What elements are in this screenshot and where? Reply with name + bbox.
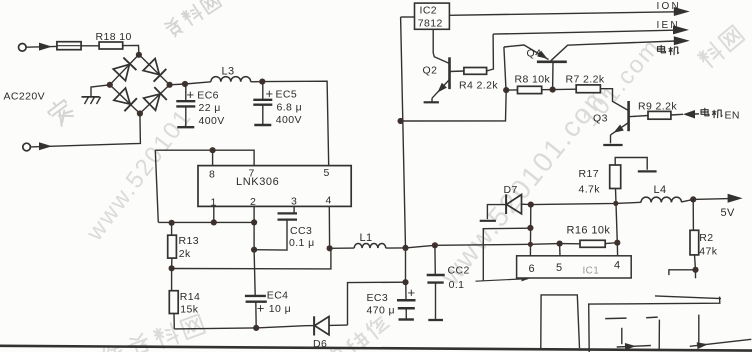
wire: left bypass vertical <box>155 150 158 222</box>
wire: bridge left to earth <box>91 85 110 97</box>
svg-text:6.8 μ: 6.8 μ <box>277 101 303 113</box>
svg-text:+: + <box>187 87 195 102</box>
svg-text:+: + <box>266 86 274 101</box>
node: R13 top <box>169 220 175 226</box>
label EC4 10u <box>267 290 291 315</box>
capacitor EC3 <box>397 248 416 320</box>
svg-text:IC2: IC2 <box>420 5 438 17</box>
svg-text:15k: 15k <box>180 303 198 315</box>
pin 4 <box>326 195 332 207</box>
svg-text:R4 2.2k: R4 2.2k <box>459 80 498 92</box>
wire: phase input with arrow <box>26 43 57 51</box>
svg-text:Q4: Q4 <box>527 48 542 60</box>
node: EC6 top <box>182 81 188 87</box>
svg-text:4: 4 <box>614 259 621 271</box>
resistor R9 <box>648 111 683 119</box>
wire: L4 to 5V out <box>682 199 694 202</box>
svg-text:22 μ: 22 μ <box>199 102 221 114</box>
svg-text:R17: R17 <box>579 168 599 180</box>
node: CC3 bottom junction <box>251 247 257 253</box>
pin 3 <box>291 196 297 208</box>
node: R16 right <box>614 240 620 246</box>
svg-text:R14: R14 <box>180 291 200 303</box>
label 5V <box>721 207 736 219</box>
pin 6 <box>529 263 536 275</box>
svg-text:L3: L3 <box>222 66 235 78</box>
wire: pin 8 stub <box>212 150 214 165</box>
svg-text:IC1: IC1 <box>583 266 600 277</box>
node: EC4 bottom <box>253 325 259 331</box>
svg-text:L1: L1 <box>360 232 373 244</box>
wire: bottom stub 1 <box>605 317 626 320</box>
diode D2 (bridge top-right) <box>139 55 170 85</box>
wire: 12V feed vertical <box>401 17 406 248</box>
node: R17 rail cross <box>613 201 618 206</box>
svg-text:5: 5 <box>556 262 563 274</box>
node: pin2 junction <box>251 219 257 225</box>
node: bridge left <box>107 82 113 88</box>
op-amp U2 IC1 box <box>517 256 632 278</box>
ground: R17 bar <box>638 170 657 172</box>
wire: bottom box B <box>589 296 721 352</box>
wire: IC2 out to Q2 collector <box>433 29 449 63</box>
wire: pin 2 stub <box>253 206 255 222</box>
svg-text:3: 3 <box>291 196 297 208</box>
pin 7 <box>249 168 255 180</box>
wire: R18 to bridge top <box>123 45 139 54</box>
resistor R16 <box>560 240 618 247</box>
label IC1 <box>583 266 600 277</box>
wire: D6 to EC3 top <box>348 282 406 325</box>
fuse F1 <box>57 42 81 50</box>
svg-text:CC2: CC2 <box>448 265 470 277</box>
pin 8 <box>209 169 215 181</box>
wire: 5V arrow <box>693 194 742 203</box>
node: AC input terminal L <box>19 44 27 52</box>
pin 5 <box>324 167 330 179</box>
svg-text:400V: 400V <box>199 115 225 127</box>
label R16 10k <box>567 224 611 236</box>
label EC3 470u <box>367 292 396 317</box>
wire: L3 to pin5 corner <box>251 81 329 165</box>
wire: bottom border line <box>0 346 752 351</box>
svg-text:Q3: Q3 <box>593 113 608 125</box>
label IC2 7812 <box>418 5 443 30</box>
label R13 2k <box>179 235 199 260</box>
svg-text:0.1: 0.1 <box>449 279 465 291</box>
label R2 47k <box>699 232 717 257</box>
wire: 12V rail <box>406 244 560 248</box>
node: R8 right <box>550 87 556 93</box>
wire: pins 8-7 top link <box>155 150 254 165</box>
node: R16 left <box>557 241 563 247</box>
label R4 2.2k <box>459 80 498 92</box>
capacitor EC5 <box>253 82 273 125</box>
svg-text:7812: 7812 <box>418 18 443 30</box>
ground: Q2 emitter bar <box>424 101 439 103</box>
node: pin6 rail cross <box>528 242 533 247</box>
wire: ION line <box>449 7 689 16</box>
svg-text:5: 5 <box>324 167 330 179</box>
ground: Q3 emitter bar <box>603 144 622 146</box>
resistor R18 <box>99 42 123 49</box>
svg-text:7: 7 <box>249 168 255 180</box>
svg-text:R18 10: R18 10 <box>96 31 132 43</box>
node: pin1 junction <box>211 219 217 225</box>
wire: bottom stub 2 <box>646 316 658 319</box>
wire: pin 1 stub <box>213 206 215 222</box>
svg-text:www.520101: www.520101 <box>81 104 198 247</box>
label D7 <box>504 184 518 196</box>
wire: bottom return rail <box>174 326 305 329</box>
label LNK306 <box>236 176 279 188</box>
svg-text:6: 6 <box>529 263 536 275</box>
label CC2 0.1 <box>448 265 470 292</box>
capacitor EC4 <box>245 250 267 328</box>
diode D4 (bridge bottom-right) <box>140 85 170 114</box>
wire: motor line <box>585 36 690 45</box>
node: CC2 top <box>432 242 438 248</box>
inductor L4 <box>641 197 682 202</box>
label EC6 22u 400V <box>197 90 224 128</box>
node: bridge right <box>167 82 173 88</box>
diode D6 <box>306 316 348 335</box>
wire: bottom arrow 2 <box>690 339 752 349</box>
svg-text:0.1 μ: 0.1 μ <box>289 237 315 249</box>
pin 4 ic1 <box>614 259 621 271</box>
wire: pin 4 leg <box>328 206 330 248</box>
wire: bottom box A <box>541 295 580 348</box>
svg-text:4: 4 <box>326 195 332 207</box>
svg-text:10 μ: 10 μ <box>269 303 291 315</box>
svg-text:R9 2.2k: R9 2.2k <box>638 101 677 113</box>
label R8 10k <box>515 74 551 86</box>
node: R2 bottom <box>692 267 698 273</box>
node: D7 out <box>528 202 534 208</box>
node: bridge bottom <box>137 110 143 116</box>
node: L1 right <box>402 245 408 251</box>
op-amp U3 IC2 7812 box <box>415 3 450 29</box>
wire: D7 cathode to stub <box>487 205 506 220</box>
svg-text:R16 10k: R16 10k <box>567 224 611 236</box>
inductor L1 <box>330 244 406 249</box>
transistor Q2 <box>432 57 464 102</box>
diode D7 <box>506 194 531 214</box>
transistor Q3 <box>611 101 649 143</box>
svg-text:+: + <box>257 301 265 316</box>
wire: bottom vert 3 <box>698 315 700 346</box>
label L4 <box>654 184 667 196</box>
svg-text:EC3: EC3 <box>367 292 389 304</box>
resistor R13 <box>168 223 177 268</box>
svg-text:47k: 47k <box>699 245 717 257</box>
wire: pin 5 stub <box>559 244 561 257</box>
svg-text:2: 2 <box>250 196 256 208</box>
svg-text:CC3: CC3 <box>290 225 312 237</box>
inductor L3 <box>211 77 251 82</box>
capacitor CC2 <box>427 245 445 320</box>
svg-text:R7 2.2k: R7 2.2k <box>566 73 605 85</box>
ground: D7 stub bar <box>480 220 496 222</box>
label CC3 0.1u <box>289 225 315 249</box>
wire: pin 4 stub <box>616 243 618 257</box>
diode D3 (bridge bottom-left) <box>110 85 140 114</box>
wire: IC2 input <box>401 16 415 18</box>
capacitor CC3 <box>254 206 297 250</box>
label EC5 6.8u 400V <box>276 89 303 126</box>
wire: tap to CC2 side <box>483 228 530 281</box>
node: EC3 top junction <box>402 279 408 285</box>
svg-text:D7: D7 <box>504 184 518 196</box>
label L1 <box>360 232 373 244</box>
wire: source bus <box>158 221 254 223</box>
svg-text:LNK306: LNK306 <box>236 176 279 188</box>
node: R2 top <box>690 196 696 202</box>
svg-text:EC4: EC4 <box>267 290 289 302</box>
op-amp U1 LNK306 box <box>198 166 351 207</box>
label Q4 <box>527 48 542 60</box>
svg-text:R13: R13 <box>179 235 199 247</box>
wire: pin 2 down <box>253 222 255 249</box>
label R7 2.2k <box>566 73 605 85</box>
svg-text:R8 10k: R8 10k <box>515 74 551 86</box>
node: R13 bottom <box>169 265 175 271</box>
wire: R17 bottom leg <box>616 189 618 243</box>
wire: bottom arrow 1 <box>617 343 651 350</box>
label R9 2.2k <box>638 101 677 113</box>
node: EC5 top <box>259 79 265 85</box>
pin 2 <box>250 196 256 208</box>
transistor Q4 <box>504 44 585 89</box>
resistor R2 <box>690 199 699 269</box>
wire: annotation leader <box>476 276 530 281</box>
node: Q2 tap <box>398 118 404 124</box>
svg-text:4.7k: 4.7k <box>579 184 601 196</box>
wire: R2 bottom L <box>669 270 696 279</box>
label ION <box>657 1 681 12</box>
pin 1 <box>211 197 217 209</box>
resistor R8 <box>506 86 552 93</box>
svg-text:Q2: Q2 <box>423 65 438 77</box>
node: pin8 junction <box>210 147 216 153</box>
wire: Q4 emitter down <box>504 47 506 90</box>
label R18 10 <box>96 31 132 43</box>
node: R8 left <box>503 87 509 93</box>
node: L1 left <box>327 245 333 251</box>
svg-text:AC220V: AC220V <box>4 91 46 103</box>
wire: neutral input with arrow <box>30 114 140 151</box>
svg-text:2k: 2k <box>179 248 191 260</box>
svg-text:L4: L4 <box>654 184 667 196</box>
resistor R14 <box>169 268 178 329</box>
wire: IEN line <box>493 25 689 34</box>
resistor R4 <box>464 34 494 74</box>
node: AC input terminal N <box>23 143 31 151</box>
label R14 15k <box>180 291 200 315</box>
svg-text:470 μ: 470 μ <box>367 305 396 317</box>
wire: Q2 base return <box>401 90 507 121</box>
wire: D7 down to pin6 <box>529 205 531 257</box>
wire: bottom vert 2 <box>658 320 660 351</box>
label D6 <box>313 338 327 350</box>
svg-text:ION: ION <box>657 1 681 12</box>
wire: fuse to R18 <box>81 45 99 47</box>
svg-text:+: + <box>408 285 416 300</box>
label Q3 <box>593 113 608 125</box>
capacitor EC6 <box>176 84 195 127</box>
node: pin6 tap <box>527 225 533 231</box>
svg-text:EC6: EC6 <box>197 90 219 102</box>
wire: bottom vert 1 <box>621 328 623 344</box>
svg-text:R2: R2 <box>699 232 713 244</box>
label 电机EN <box>701 108 740 121</box>
node: bridge top <box>136 52 142 58</box>
ground: mains earth <box>82 97 101 104</box>
svg-text:5V: 5V <box>721 207 736 219</box>
wire: feedback to pin4 leg <box>172 248 331 269</box>
label Q2 <box>423 65 438 77</box>
label IEN <box>657 20 680 31</box>
svg-text:EC5: EC5 <box>276 89 298 101</box>
label L3 <box>222 66 235 78</box>
svg-text:EN: EN <box>725 109 740 121</box>
label AC220V <box>4 91 46 103</box>
diode D1 (bridge top-left) <box>110 55 139 85</box>
resistor R17 <box>610 158 648 189</box>
wire: HV rail <box>170 82 211 85</box>
label 电机 <box>658 45 679 54</box>
svg-text:IEN: IEN <box>657 20 680 31</box>
pin 5 ic1 <box>556 262 563 274</box>
resistor R7 <box>553 85 629 111</box>
label R17 4.7k <box>579 168 601 196</box>
wire: motor EN input <box>683 110 699 119</box>
svg-text:8: 8 <box>209 169 215 181</box>
svg-text:400V: 400V <box>276 114 302 126</box>
wire: 5V line <box>531 202 641 204</box>
